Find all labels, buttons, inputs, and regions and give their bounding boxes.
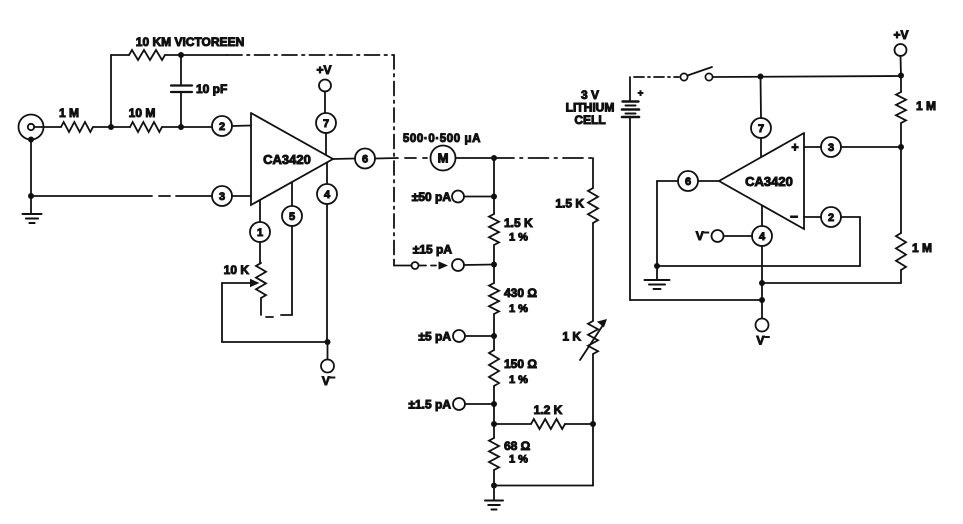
svg-text:10 M: 10 M — [129, 106, 156, 120]
svg-text:10 K: 10 K — [224, 263, 250, 277]
svg-text:−: − — [790, 209, 798, 225]
svg-text:10 KM VICTOREEN: 10 KM VICTOREEN — [136, 35, 244, 49]
svg-text:+V: +V — [893, 28, 908, 42]
svg-text:+: + — [791, 141, 798, 155]
svg-text:1 M: 1 M — [59, 106, 79, 120]
svg-text:1 K: 1 K — [562, 330, 581, 344]
svg-text:4: 4 — [324, 189, 331, 201]
svg-text:68 Ω: 68 Ω — [504, 439, 531, 453]
svg-text:+: + — [638, 88, 644, 99]
svg-text:10 pF: 10 pF — [196, 82, 227, 96]
svg-text:±5 pA: ±5 pA — [418, 330, 451, 344]
svg-text:4: 4 — [759, 231, 766, 243]
svg-text:1 %: 1 % — [509, 303, 528, 315]
svg-text:+V: +V — [316, 63, 331, 77]
svg-text:1.5 K: 1.5 K — [555, 197, 584, 211]
svg-text:CA3420: CA3420 — [745, 174, 793, 189]
svg-text:CELL: CELL — [574, 113, 605, 127]
svg-text:7: 7 — [323, 118, 329, 130]
svg-text:1: 1 — [257, 227, 263, 239]
svg-text:±1.5 pA: ±1.5 pA — [408, 398, 451, 412]
svg-text:150 Ω: 150 Ω — [504, 357, 537, 371]
svg-text:430 Ω: 430 Ω — [504, 286, 537, 300]
svg-text:500·0·500 μA: 500·0·500 μA — [403, 133, 481, 145]
svg-text:2: 2 — [219, 121, 225, 133]
svg-text:1 %: 1 % — [509, 374, 528, 386]
svg-text:6: 6 — [685, 176, 691, 188]
svg-text:±50 pA: ±50 pA — [412, 190, 452, 204]
svg-text:1 %: 1 % — [509, 454, 528, 466]
svg-text:±15 pA: ±15 pA — [413, 243, 453, 257]
svg-text:CA3420: CA3420 — [263, 152, 311, 167]
svg-text:M: M — [438, 151, 449, 166]
svg-text:1 M: 1 M — [912, 241, 932, 255]
svg-text:3: 3 — [219, 191, 225, 203]
svg-text:3: 3 — [828, 142, 834, 154]
svg-text:7: 7 — [758, 123, 764, 135]
svg-text:1.2 K: 1.2 K — [534, 403, 563, 417]
svg-text:1 %: 1 % — [509, 232, 528, 244]
svg-text:6: 6 — [362, 153, 368, 165]
svg-text:1 M: 1 M — [916, 99, 936, 113]
svg-text:2: 2 — [828, 212, 834, 224]
svg-text:5: 5 — [289, 211, 295, 223]
svg-text:1.5 K: 1.5 K — [504, 216, 533, 230]
